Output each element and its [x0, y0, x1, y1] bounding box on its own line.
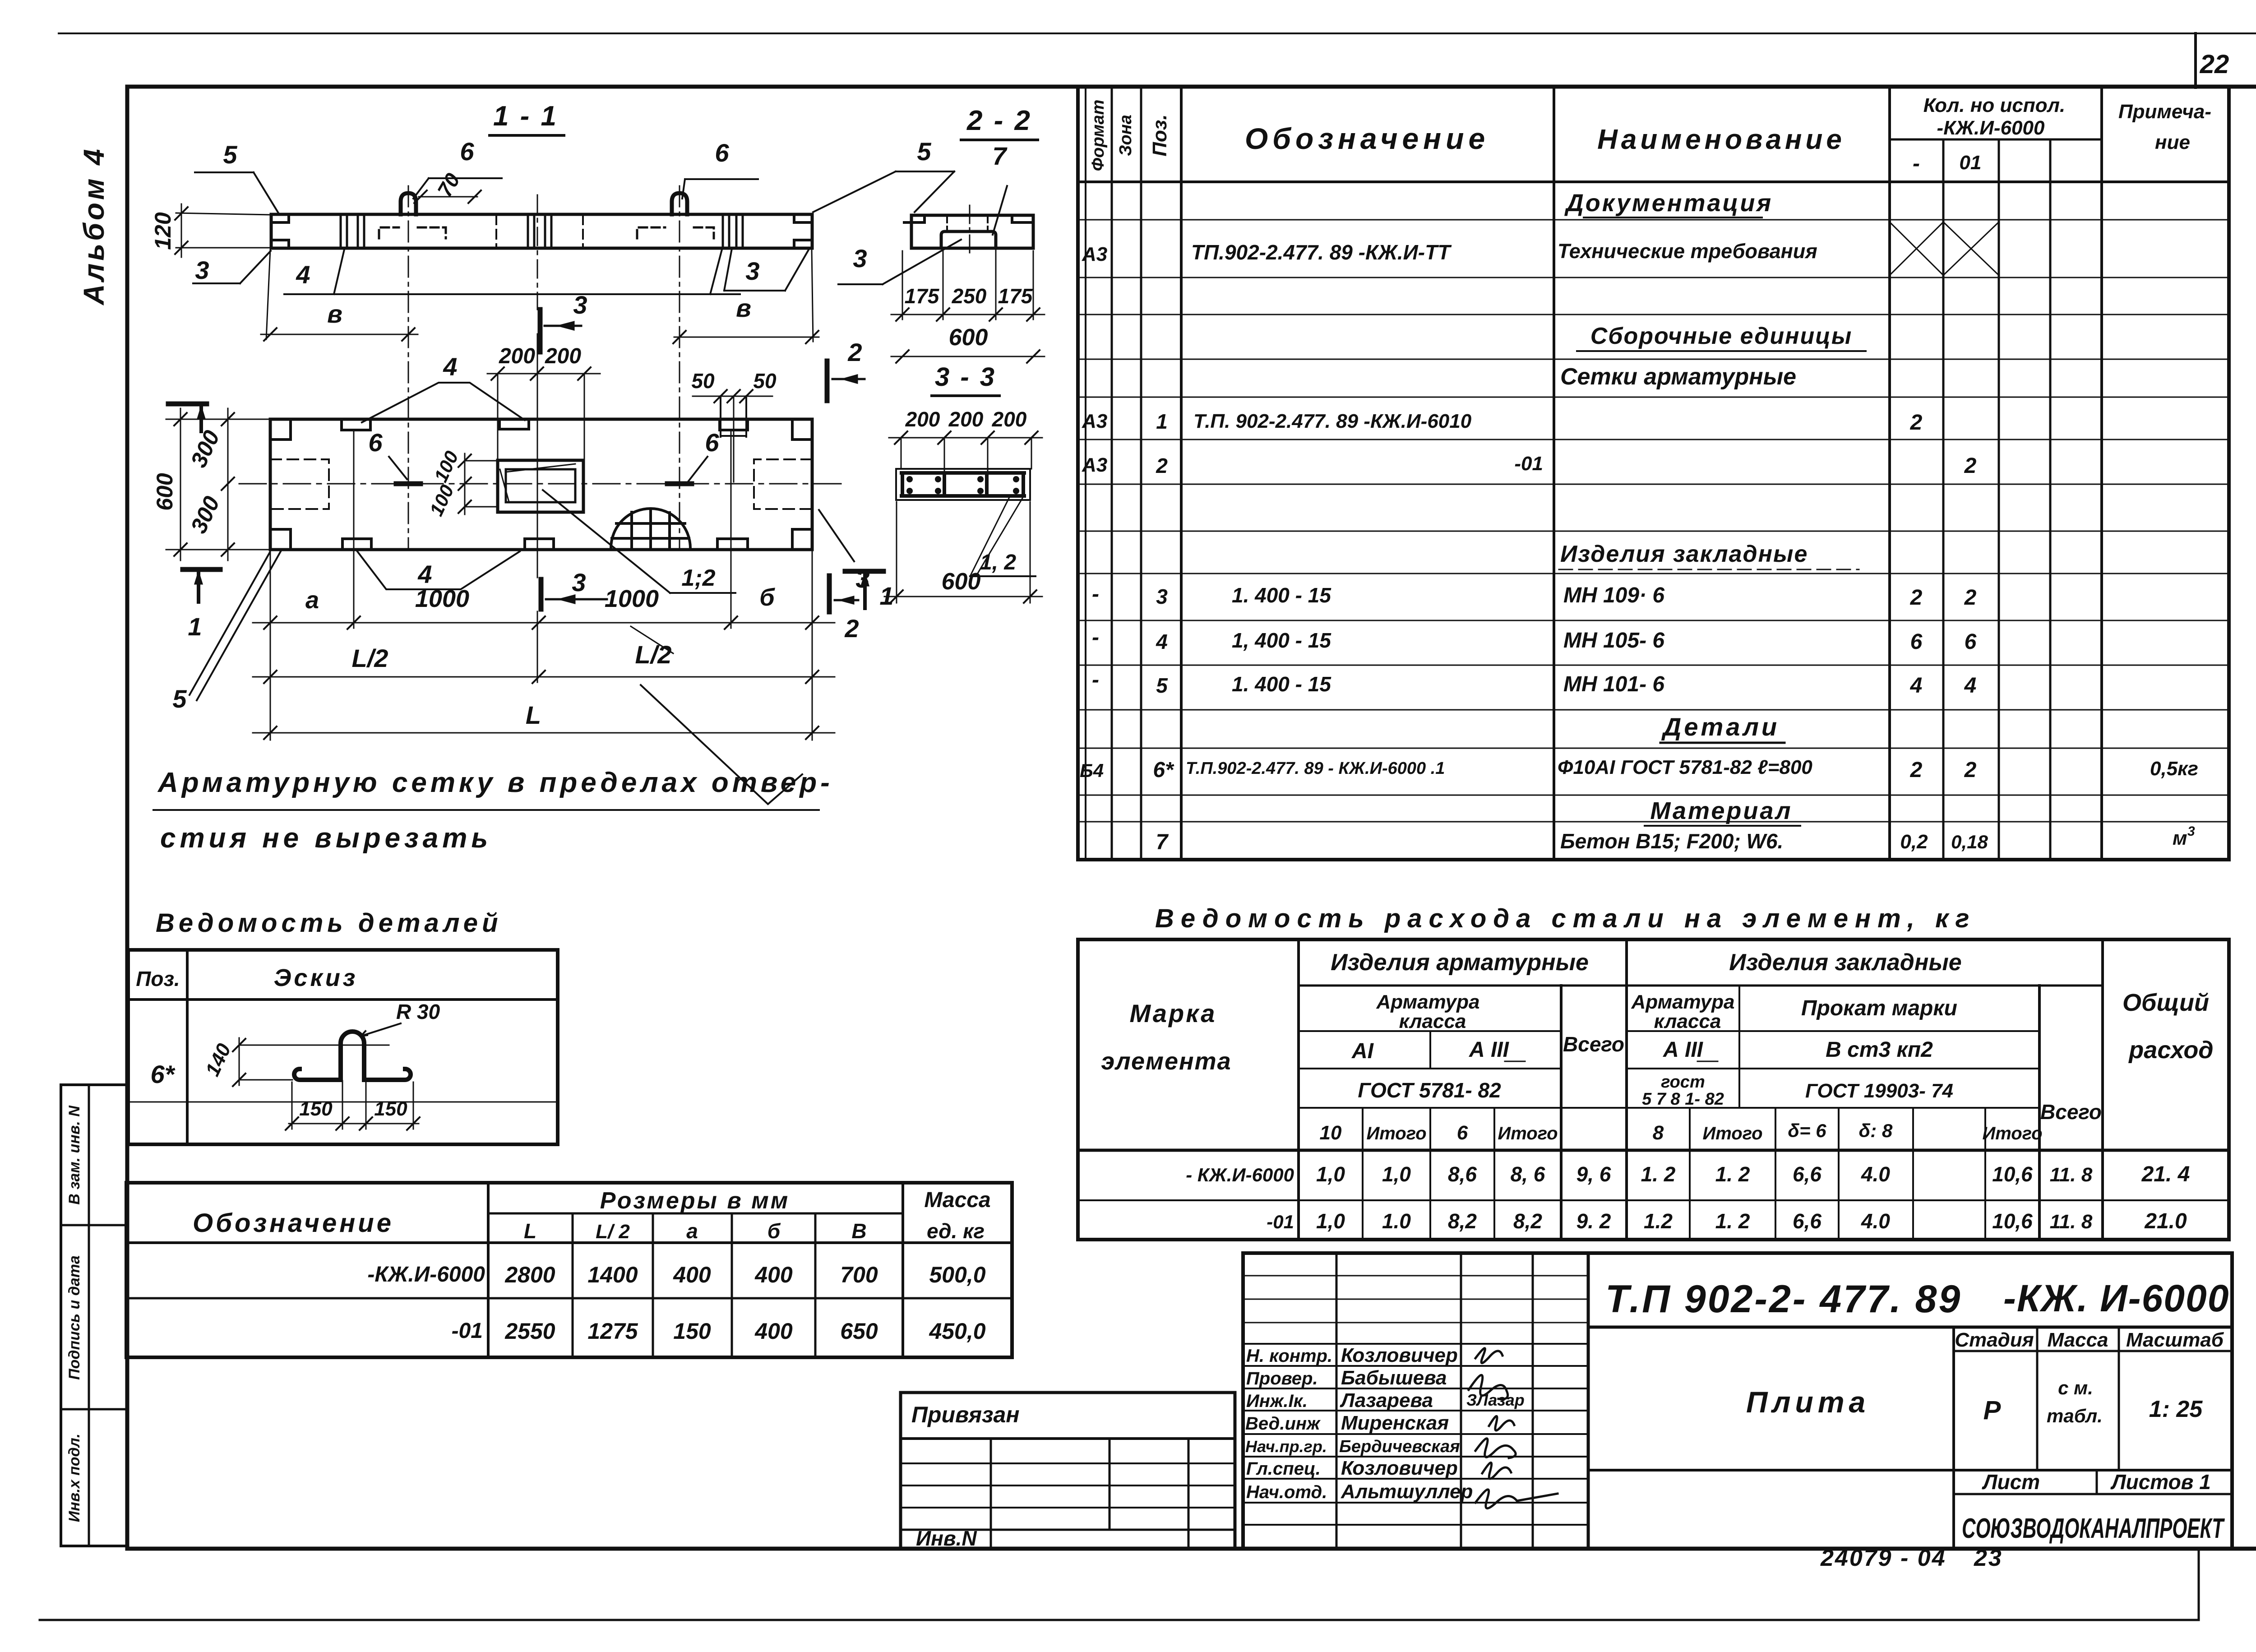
- svg-text:L/2: L/2: [635, 640, 672, 669]
- svg-text:Масса: Масса: [924, 1188, 990, 1212]
- svg-text:8,2: 8,2: [1448, 1209, 1477, 1233]
- svg-text:6*: 6*: [151, 1060, 176, 1088]
- svg-text:175: 175: [905, 284, 940, 308]
- svg-text:400: 400: [754, 1319, 793, 1344]
- svg-text:Поз.: Поз.: [136, 967, 180, 990]
- svg-text:-01: -01: [1514, 453, 1543, 475]
- dimension 300 300 left (vertical): [186, 408, 234, 560]
- svg-text:1: 25: 1: 25: [2149, 1396, 2203, 1422]
- label 4 above plan: [362, 352, 525, 422]
- svg-text:4: 4: [1156, 630, 1168, 653]
- steel header: Всего (арм): [1563, 1032, 1624, 1056]
- section cut mark 2 bottom: [829, 576, 859, 643]
- spec header: Обозначение: [1245, 122, 1489, 155]
- svg-text:Всего: Всего: [2040, 1100, 2102, 1124]
- title block: Лист / Листов 1 row: [1954, 1470, 2232, 1494]
- svg-text:175: 175: [998, 284, 1033, 308]
- svg-text:Бердичевская: Бердичевская: [1339, 1437, 1460, 1456]
- svg-text:Зона: Зона: [1116, 115, 1135, 156]
- dimension в right: [673, 249, 819, 343]
- loop axis centreline left: [408, 186, 409, 548]
- svg-text:Т.П 902-2- 477. 89: Т.П 902-2- 477. 89: [1605, 1277, 1962, 1321]
- svg-text:Изделия арматурные: Изделия арматурные: [1331, 949, 1589, 976]
- detail sketch: bent hairpin bar: [294, 1032, 411, 1080]
- svg-text:Детали: Детали: [1661, 713, 1780, 741]
- svg-text:2 - 2: 2 - 2: [966, 105, 1032, 136]
- dimension 600 under 2-2: [891, 324, 1045, 363]
- steel data row КЖ.И-6000: [1186, 1162, 2190, 1186]
- note line 1: Арматурную сетку в пределах отвер-: [153, 767, 833, 810]
- svg-text:0,2: 0,2: [1900, 831, 1928, 853]
- svg-text:Инв.N: Инв.N: [916, 1527, 977, 1550]
- svg-text:Бетон В15; F200; W6.: Бетон В15; F200; W6.: [1560, 829, 1783, 853]
- plan hairpin mark right (item 6): [667, 481, 692, 486]
- size table row КЖ.И-6000: [367, 1262, 985, 1287]
- svg-text:Сборочные единицы: Сборочные единицы: [1590, 323, 1853, 349]
- spec row: Материал heading: [1645, 797, 1800, 826]
- svg-text:1: 1: [188, 612, 202, 641]
- label 5 top-right: [813, 137, 954, 212]
- svg-text:Привязан: Привязан: [911, 1402, 1020, 1427]
- svg-text:3: 3: [195, 256, 209, 284]
- svg-text:L/2: L/2: [352, 644, 388, 672]
- svg-text:3: 3: [572, 568, 586, 597]
- sheet number box 22: [2196, 33, 2229, 88]
- svg-text:2: 2: [844, 614, 859, 643]
- section 2-2 corner notches: [904, 215, 1031, 222]
- svg-text:с м.: с м.: [2058, 1377, 2093, 1398]
- section cut line 3-3 vertical: [537, 195, 538, 578]
- section 2-2 centreline: [969, 205, 971, 253]
- svg-text:Сетки арматурные: Сетки арматурные: [1560, 364, 1796, 390]
- size table lines: [126, 1183, 1012, 1357]
- spec row: poz 7 Бетон: [1156, 824, 2195, 854]
- section cut mark 3 top: [540, 291, 587, 352]
- svg-text:400: 400: [673, 1262, 711, 1287]
- svg-text:1,0: 1,0: [1382, 1162, 1411, 1186]
- svg-text:Лазарева: Лазарева: [1340, 1389, 1433, 1411]
- svg-text:Подпись и дата: Подпись и дата: [66, 1255, 83, 1380]
- svg-text:-: -: [1092, 668, 1099, 692]
- svg-text:Изделия закладные: Изделия закладные: [1729, 949, 1961, 976]
- detail sketch label R30: [361, 1000, 440, 1036]
- svg-text:Общий: Общий: [2122, 989, 2209, 1016]
- svg-text:-: -: [1092, 625, 1099, 649]
- svg-text:6: 6: [1965, 630, 1977, 654]
- size table header: Обозначение: [193, 1208, 394, 1238]
- svg-text:200: 200: [948, 407, 984, 431]
- section 1-1 hairpin detail left (dashed): [379, 227, 446, 238]
- svg-text:Т.П. 902-2.477. 89 -КЖ.И-6010: Т.П. 902-2.477. 89 -КЖ.И-6010: [1193, 410, 1472, 432]
- steel header: 8 / Итого / b6 / b8 / Итого: [1653, 1120, 2043, 1144]
- plan corner notch top-right: [792, 419, 812, 440]
- label 3 at section 2-2: [838, 240, 961, 284]
- plan view outline: [270, 419, 812, 550]
- svg-text:Стадия: Стадия: [1955, 1329, 2034, 1351]
- svg-text:МН 105- 6: МН 105- 6: [1563, 629, 1664, 652]
- signature row: Провер. Бабышева: [1246, 1367, 1447, 1389]
- svg-text:Ведомость расхода стали: Ведомость расхода стали на элемент, кг: [1155, 904, 1976, 933]
- svg-text:6: 6: [1457, 1122, 1468, 1144]
- dimension 200 200 above opening: [487, 344, 600, 459]
- svg-text:0,5кг: 0,5кг: [2150, 758, 2198, 780]
- spec row: poz 3 МН 109-6: [1092, 582, 1977, 610]
- svg-text:150: 150: [374, 1098, 407, 1120]
- signature row: Гл.спец. Козловичер: [1246, 1457, 1458, 1479]
- svg-text:1,0: 1,0: [1316, 1162, 1345, 1186]
- dimension 200 200 200 above 3-3: [889, 407, 1042, 473]
- svg-text:Масса: Масса: [2047, 1329, 2108, 1351]
- svg-text:1,0: 1,0: [1316, 1209, 1345, 1233]
- svg-text:2: 2: [1910, 411, 1923, 435]
- title block outer frame: [1243, 1253, 2232, 1549]
- svg-text:СОЮЗВОДОКАНАЛПРОЕКТ: СОЮЗВОДОКАНАЛПРОЕКТ: [1962, 1513, 2225, 1544]
- svg-text:2: 2: [1910, 586, 1923, 610]
- title block: Инв.N label: [916, 1527, 977, 1550]
- svg-text:ГОСТ 5781- 82: ГОСТ 5781- 82: [1358, 1078, 1501, 1102]
- dimension 120: [150, 204, 271, 257]
- signature row: Инж.Iк. Лазарева: [1246, 1389, 1525, 1411]
- svg-text:L: L: [526, 701, 541, 729]
- label 1.2 at section 3-3: [970, 496, 1036, 576]
- svg-text:Б4: Б4: [1080, 760, 1104, 781]
- svg-text:-01: -01: [452, 1319, 483, 1343]
- svg-text:8,2: 8,2: [1513, 1209, 1542, 1233]
- svg-text:3: 3: [1156, 585, 1168, 608]
- svg-text:400: 400: [754, 1262, 793, 1287]
- section 1-1 lifting loop right: [672, 193, 687, 214]
- svg-text:Обозначение: Обозначение: [1245, 122, 1489, 155]
- svg-text:1, 2: 1, 2: [980, 551, 1016, 574]
- svg-text:класса: класса: [1654, 1010, 1721, 1032]
- steel header: А III (закл): [1663, 1038, 1718, 1062]
- svg-text:150: 150: [299, 1098, 333, 1120]
- plan corner notch bottom-right: [792, 529, 812, 550]
- section 3-3 rebar dots: [906, 476, 1019, 494]
- section 3-3 mesh bars: [901, 473, 1024, 496]
- plan hidden plate left (item 3, dashed): [270, 459, 329, 509]
- spec header: Формат: [1089, 100, 1108, 171]
- svg-text:А3: А3: [1082, 243, 1107, 265]
- plan arc opening with mesh: [611, 509, 690, 548]
- svg-text:1;2: 1;2: [681, 565, 715, 591]
- steel header: ГОСТ 5781-82 (арм): [1358, 1078, 1501, 1102]
- svg-text:Ведомость деталей: Ведомость деталей: [156, 908, 502, 938]
- svg-text:Ф10АI ГОСТ 5781-82 ℓ=800: Ф10АI ГОСТ 5781-82 ℓ=800: [1558, 756, 1812, 778]
- svg-text:- КЖ.И-6000: - КЖ.И-6000: [1186, 1164, 1294, 1185]
- svg-text:8: 8: [1653, 1122, 1664, 1144]
- svg-text:Документация: Документация: [1564, 190, 1773, 217]
- svg-text:Примеча-: Примеча-: [2118, 101, 2211, 123]
- title block: Привязан box: [901, 1393, 1235, 1549]
- section cut mark 1 right: [845, 571, 894, 610]
- section cut mark 3 bottom: [541, 568, 607, 609]
- svg-text:23: 23: [1974, 1545, 2003, 1571]
- section 1-1 left corner notches: [271, 215, 289, 247]
- svg-text:δ: 8: δ: 8: [1859, 1120, 1893, 1141]
- section cut mark 2 top: [827, 338, 864, 401]
- left margin strip frame: [61, 1085, 126, 1546]
- loop axis centreline right: [679, 186, 680, 548]
- steel table title: Ведомость расхода стали: [1155, 904, 1976, 933]
- plan left dimension extensions: [166, 419, 270, 550]
- svg-text:Кол. но испол.: Кол. но испол.: [1923, 94, 2065, 116]
- svg-text:ТП.902-2.477. 89 -КЖ.И-ТТ: ТП.902-2.477. 89 -КЖ.И-ТТ: [1191, 241, 1452, 264]
- svg-text:Технические требования: Технические требования: [1558, 240, 1817, 263]
- plan embedded plates bottom edge (item 4): [342, 539, 748, 550]
- title block: Плита cell: [1588, 1385, 2232, 1470]
- spec row: poz 4 МН 105-6: [1092, 625, 1977, 654]
- dimension row L/2 L/2: [253, 626, 835, 683]
- svg-text:МН 101- 6: МН 101- 6: [1563, 672, 1664, 696]
- svg-text:Изделия закладные: Изделия закладные: [1560, 541, 1808, 567]
- svg-text:Всего: Всего: [1563, 1032, 1624, 1056]
- spec header: Зона: [1116, 115, 1135, 156]
- label 6 in plan right: [689, 428, 719, 481]
- svg-text:6: 6: [715, 139, 729, 167]
- spec row: Сетки арматурные: [1560, 364, 1796, 390]
- svg-text:Нач.пр.гр.: Нач.пр.гр.: [1245, 1437, 1327, 1456]
- section 1-1 embedded plate hatch centre: [528, 215, 551, 247]
- svg-text:1.0: 1.0: [1382, 1209, 1411, 1233]
- svg-text:в: в: [327, 300, 342, 328]
- svg-text:МН 109· 6: МН 109· 6: [1563, 583, 1664, 607]
- svg-text:5 7 8 1- 82: 5 7 8 1- 82: [1642, 1090, 1724, 1109]
- svg-text:Бабышева: Бабышева: [1341, 1367, 1447, 1389]
- svg-text:650: 650: [840, 1319, 878, 1344]
- svg-text:В ст3 кп2: В ст3 кп2: [1826, 1038, 1933, 1062]
- dimension в left: [261, 249, 418, 341]
- steel header: Изделия арматурные: [1331, 949, 1589, 976]
- label 6 left loop: [413, 137, 502, 199]
- svg-text:250: 250: [952, 284, 987, 308]
- spec row: Технические требования: [1082, 240, 1817, 265]
- spec row: poz 5 МН 101-6: [1092, 668, 1976, 698]
- svg-text:10: 10: [1320, 1122, 1342, 1144]
- svg-text:6: 6: [1910, 630, 1923, 654]
- svg-text:600: 600: [152, 473, 177, 511]
- steel header: Изделия закладные: [1729, 949, 1961, 976]
- label 6 right loop: [682, 139, 758, 199]
- plan opening outline: [498, 460, 583, 512]
- steel header: В ст3 кп2: [1826, 1038, 1933, 1062]
- svg-text:4: 4: [296, 260, 310, 289]
- dimension 70 at loop: [414, 169, 481, 203]
- page top rule: [59, 32, 2256, 34]
- svg-text:стия не вырезать: стия не вырезать: [160, 823, 492, 854]
- album label: Альбом 4: [78, 146, 110, 305]
- svg-text:Н. контр.: Н. контр.: [1246, 1346, 1332, 1366]
- svg-text:6*: 6*: [1153, 758, 1174, 782]
- svg-text:600: 600: [949, 324, 988, 351]
- label 3 below left end: [193, 251, 271, 284]
- svg-text:11. 8: 11. 8: [2050, 1211, 2093, 1233]
- svg-text:Листов 1: Листов 1: [2110, 1470, 2211, 1494]
- document id 24079-04 23: [1820, 1545, 2003, 1571]
- section 1-1 embedded plate hatch left (item 4): [341, 215, 364, 247]
- svg-text:Инж.Iк.: Инж.Iк.: [1246, 1391, 1308, 1411]
- svg-text:Лист: Лист: [1982, 1470, 2040, 1494]
- svg-text:4.0: 4.0: [1861, 1162, 1890, 1186]
- label 1;2 slope in plan: [543, 490, 735, 593]
- section 1-1 right corner notches: [794, 215, 812, 247]
- title block: stage P, mass, scale values: [1983, 1377, 2203, 1426]
- svg-text:8, 6: 8, 6: [1511, 1162, 1545, 1186]
- svg-text:1400: 1400: [587, 1262, 638, 1287]
- svg-text:11. 8: 11. 8: [2050, 1164, 2093, 1186]
- svg-text:Вед.инж: Вед.инж: [1245, 1414, 1321, 1434]
- svg-text:9. 2: 9. 2: [1576, 1209, 1611, 1233]
- spec row qty cross-out X marks: [1890, 222, 1999, 275]
- svg-text:класса: класса: [1399, 1010, 1466, 1032]
- plan hairpin mark left (item 6): [396, 481, 421, 486]
- label 3 right of plan: [819, 510, 870, 593]
- svg-text:В: В: [851, 1219, 866, 1243]
- strip cell: Подпись и дата: [61, 1255, 126, 1409]
- svg-text:б: б: [767, 1219, 781, 1243]
- svg-text:120: 120: [150, 212, 176, 250]
- svg-text:450,0: 450,0: [929, 1319, 985, 1344]
- svg-text:50: 50: [753, 369, 777, 393]
- svg-text:3: 3: [855, 565, 869, 593]
- spec subheader dash and 01: [1913, 152, 1981, 176]
- svg-text:Плита: Плита: [1746, 1385, 1870, 1419]
- svg-text:1. 400 - 15: 1. 400 - 15: [1232, 583, 1331, 607]
- svg-text:500,0: 500,0: [929, 1262, 985, 1287]
- note line 2: стия не вырезать: [160, 823, 492, 854]
- svg-text:150: 150: [673, 1319, 711, 1344]
- svg-text:24079 - 04: 24079 - 04: [1820, 1545, 1946, 1571]
- svg-text:в: в: [736, 294, 751, 322]
- svg-text:200: 200: [905, 407, 940, 431]
- details header: Эскиз: [274, 964, 358, 991]
- size table row -01: [452, 1319, 986, 1344]
- plan hidden plate right (item 3, dashed): [754, 459, 812, 509]
- title block: СОЮЗВОДОКАНАЛПРОЕКТ: [1962, 1513, 2225, 1544]
- section title 3-3: [932, 362, 999, 396]
- steel data row -01: [1267, 1209, 2187, 1233]
- svg-text:4: 4: [443, 352, 457, 381]
- svg-text:Т.П.902-2.477. 89 - КЖ.И-6000: Т.П.902-2.477. 89 - КЖ.И-6000 .1: [1186, 759, 1445, 778]
- svg-text:ед. кг: ед. кг: [927, 1219, 985, 1243]
- svg-text:4: 4: [417, 560, 432, 588]
- svg-text:-: -: [1092, 582, 1099, 606]
- details table title: Ведомость деталей: [156, 908, 502, 938]
- svg-text:Масштаб: Масштаб: [2126, 1329, 2224, 1351]
- svg-text:1. 400 - 15: 1. 400 - 15: [1232, 672, 1331, 696]
- svg-text:Гл.спец.: Гл.спец.: [1246, 1459, 1321, 1479]
- svg-text:6: 6: [705, 428, 719, 457]
- svg-text:ГОСТ 19903- 74: ГОСТ 19903- 74: [1805, 1080, 1953, 1102]
- steel header: Арматура класса (арм): [1376, 991, 1480, 1032]
- svg-text:2: 2: [1964, 454, 1977, 478]
- steel header: Всего (закл): [2040, 1100, 2102, 1124]
- signature squiggles: [1469, 1348, 1558, 1509]
- svg-text:1. 2: 1. 2: [1641, 1162, 1676, 1186]
- svg-text:5: 5: [172, 685, 187, 713]
- steel table verticals: [1299, 939, 2103, 1240]
- svg-text:21. 4: 21. 4: [2141, 1162, 2190, 1186]
- svg-text:01: 01: [1960, 152, 1982, 174]
- svg-text:АI: АI: [1351, 1039, 1374, 1063]
- section title 1-1: [490, 101, 564, 135]
- section 2-2 plate anchors dashed: [947, 216, 988, 231]
- page bottom rule: [40, 1549, 2199, 1620]
- spec table column lines: [1086, 87, 2102, 860]
- svg-text:-: -: [1913, 152, 1920, 176]
- signature row: Нач.пр.гр. Бердичевская: [1245, 1437, 1460, 1456]
- size table frame: [126, 1183, 1012, 1357]
- svg-text:L: L: [524, 1219, 536, 1243]
- svg-text:4.0: 4.0: [1861, 1209, 1890, 1233]
- label 3 below right end: [724, 249, 809, 291]
- spec header: Наименование: [1597, 124, 1845, 155]
- svg-text:элемента: элемента: [1101, 1048, 1231, 1075]
- svg-text:5: 5: [917, 137, 931, 166]
- label 5 top-left: [195, 140, 278, 213]
- svg-text:3: 3: [2187, 824, 2195, 839]
- svg-text:L/ 2: L/ 2: [596, 1221, 630, 1243]
- dimension 600 under 3-3: [884, 502, 1042, 603]
- dimension 50 50: [691, 369, 777, 482]
- svg-text:3: 3: [573, 291, 587, 319]
- spec row: poz 6* hairpin detail: [1080, 756, 2198, 782]
- steel header: 10 / Итого / 6 / Итого: [1320, 1122, 1558, 1144]
- section 1-1 embedded plate hatch right: [723, 215, 743, 247]
- signature table columns: [1336, 1253, 1588, 1549]
- svg-text:Итого: Итого: [1498, 1124, 1558, 1143]
- svg-text:6,6: 6,6: [1793, 1209, 1821, 1233]
- steel header: Марка элемента: [1101, 999, 1231, 1075]
- svg-text:200: 200: [545, 344, 581, 368]
- section 1-1 hairpin detail right (dashed): [637, 227, 714, 238]
- plan bottom dimension extensions: [270, 431, 812, 740]
- dimension row a 1000 1000 б: [253, 584, 835, 629]
- dimension 600 left (vertical): [152, 408, 187, 560]
- plan opening inner frame: [500, 464, 575, 502]
- svg-text:3: 3: [745, 257, 759, 285]
- spec header: Поз.: [1149, 114, 1171, 156]
- svg-text:1: 1: [1156, 410, 1168, 433]
- svg-text:расход: расход: [2128, 1037, 2213, 1064]
- svg-text:1. 2: 1. 2: [1715, 1209, 1750, 1233]
- svg-text:2: 2: [847, 338, 862, 366]
- spec row: poz 1 КЖ.И-6010: [1082, 410, 1923, 435]
- svg-text:ЗЛазар: ЗЛазар: [1466, 1391, 1525, 1409]
- steel table frame: [1078, 939, 2229, 1240]
- svg-text:Итого: Итого: [1702, 1124, 1762, 1143]
- svg-text:2: 2: [1964, 758, 1977, 782]
- size table subheaders L L/2 a б В: [524, 1219, 867, 1243]
- svg-text:δ= 6: δ= 6: [1788, 1120, 1826, 1141]
- plan embedded plates top edge (item 4): [342, 419, 748, 430]
- svg-text:6: 6: [368, 428, 383, 457]
- svg-text:50: 50: [691, 369, 715, 393]
- label 5 bottom-left with leaders: [172, 551, 281, 713]
- signature table rows: [1243, 1276, 1588, 1525]
- svg-text:21.0: 21.0: [2144, 1209, 2187, 1233]
- svg-text:Инв.х подл.: Инв.х подл.: [66, 1434, 83, 1522]
- spec row: Документация heading: [1564, 190, 1773, 217]
- details row: poz 6*: [151, 1060, 176, 1088]
- steel header: Общий расход: [2122, 989, 2214, 1064]
- svg-text:Арматурную сетку в пределах: Арматурную сетку в пределах отвер-: [157, 767, 833, 798]
- svg-text:Нач.отд.: Нач.отд.: [1246, 1482, 1327, 1502]
- svg-text:Наименование: Наименование: [1597, 124, 1845, 155]
- svg-text:2: 2: [1156, 454, 1168, 477]
- svg-text:Марка: Марка: [1130, 999, 1217, 1027]
- spec header: Кол. на испол. -КЖ.И-6000: [1890, 94, 2102, 139]
